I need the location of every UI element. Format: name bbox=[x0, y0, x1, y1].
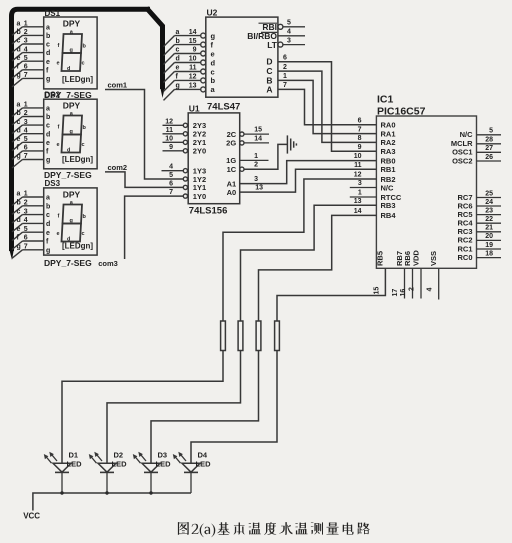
display DS2 pin g7 wire from bus bbox=[12, 160, 23, 169]
svg-text:e: e bbox=[17, 136, 21, 143]
svg-text:g: g bbox=[17, 244, 21, 251]
svg-text:2: 2 bbox=[24, 200, 28, 207]
svg-text:g: g bbox=[46, 157, 50, 164]
svg-text:b: b bbox=[83, 125, 87, 131]
svg-text:1: 1 bbox=[254, 153, 258, 160]
svg-text:6: 6 bbox=[169, 180, 173, 187]
svg-text:5: 5 bbox=[24, 226, 28, 233]
U2 pin LT (3) wire stub bbox=[283, 44, 305, 46]
wire com1 to U1 1Y2 bbox=[105, 90, 183, 180]
svg-text:g: g bbox=[17, 72, 21, 79]
svg-text:d: d bbox=[46, 221, 50, 228]
svg-text:9: 9 bbox=[358, 144, 362, 151]
resistor R2 body bbox=[238, 321, 243, 351]
svg-text:3: 3 bbox=[24, 119, 28, 126]
svg-text:3: 3 bbox=[287, 37, 291, 44]
svg-text:RC0: RC0 bbox=[457, 253, 472, 262]
svg-text:5: 5 bbox=[489, 128, 493, 135]
svg-text:e: e bbox=[17, 226, 21, 233]
U2 input pin branch from bus bbox=[164, 72, 175, 83]
display DS2 pin d4 wire from bus bbox=[12, 134, 23, 143]
U1 output 1Y3 wire stub bbox=[162, 170, 184, 172]
display DS2 pin a1 wire from bus bbox=[12, 108, 23, 117]
wire U2 D to IC1 RA pin 9 bbox=[278, 62, 377, 152]
LED D4 emission arrows bbox=[175, 456, 181, 463]
svg-text:d: d bbox=[67, 148, 70, 154]
svg-text:8: 8 bbox=[358, 135, 362, 142]
svg-text:14: 14 bbox=[189, 29, 197, 36]
svg-text:5: 5 bbox=[287, 20, 291, 27]
svg-text:b: b bbox=[211, 76, 216, 85]
U2 pin LT bubble bbox=[278, 42, 283, 47]
display DS1 pin g7 wire from bus bbox=[12, 78, 23, 87]
U2 input pin c (11) bubble bbox=[201, 69, 206, 74]
svg-text:a: a bbox=[46, 106, 50, 113]
U2 input pin g wire bbox=[175, 35, 201, 37]
svg-text:d: d bbox=[211, 58, 216, 67]
svg-text:7: 7 bbox=[24, 72, 28, 79]
LED D1 wire to bus bbox=[61, 472, 63, 493]
svg-text:g: g bbox=[70, 48, 73, 54]
svg-text:74LS156: 74LS156 bbox=[189, 205, 228, 216]
svg-text:10: 10 bbox=[354, 153, 362, 160]
LED D3 wire to bus bbox=[150, 472, 152, 493]
svg-text:14: 14 bbox=[354, 208, 362, 215]
svg-text:f: f bbox=[176, 74, 179, 81]
svg-text:VSS: VSS bbox=[429, 251, 438, 266]
svg-text:a: a bbox=[17, 102, 21, 109]
svg-text:f: f bbox=[46, 149, 49, 156]
svg-text:RB0: RB0 bbox=[381, 156, 396, 165]
svg-text:16: 16 bbox=[400, 289, 407, 297]
display DS2 pin f6 wire from bus bbox=[12, 151, 23, 160]
svg-text:LED: LED bbox=[67, 460, 83, 469]
svg-text:7: 7 bbox=[24, 244, 28, 251]
wire IC1 RB5 (15) to resistor R4 bbox=[277, 268, 385, 321]
wire bus cable (thick black) left+top bbox=[12, 9, 151, 251]
svg-text:d: d bbox=[46, 131, 50, 138]
svg-text:e: e bbox=[46, 59, 50, 66]
wire R3 to LED D3 bbox=[151, 351, 259, 464]
svg-text:IC1: IC1 bbox=[377, 94, 394, 106]
U1 pin 2G wire stub bbox=[244, 142, 269, 144]
svg-text:c: c bbox=[46, 42, 50, 49]
svg-text:c: c bbox=[82, 142, 85, 148]
U2 input pin branch from bus bbox=[164, 54, 175, 65]
svg-text:DPY: DPY bbox=[63, 189, 81, 199]
U2 input pin branch from bus bbox=[164, 63, 175, 74]
svg-text:13: 13 bbox=[354, 198, 362, 205]
svg-text:1Y0: 1Y0 bbox=[193, 192, 206, 201]
svg-text:21: 21 bbox=[485, 225, 493, 232]
IC1 pin RTCC (1) wire stub bbox=[350, 196, 377, 198]
svg-text:b: b bbox=[46, 33, 50, 40]
svg-text:A0: A0 bbox=[227, 188, 237, 197]
wire U1 1C to ground bbox=[244, 144, 287, 169]
svg-text:f: f bbox=[58, 43, 60, 49]
svg-text:RB3: RB3 bbox=[381, 201, 396, 210]
svg-text:1: 1 bbox=[283, 73, 287, 80]
svg-text:13: 13 bbox=[255, 185, 263, 192]
caption text 图2(a)基本温度水温测量电路 bbox=[178, 522, 370, 537]
display DS1 7-seg glyph bbox=[63, 34, 83, 53]
U2 input pin branch from bus bbox=[164, 80, 175, 91]
U1 pin 2G bubble bbox=[240, 141, 244, 145]
svg-text:17: 17 bbox=[392, 289, 399, 297]
display DS1 pin d4 wire from bus bbox=[12, 53, 23, 62]
svg-text:1: 1 bbox=[24, 21, 28, 28]
U1 pin 1G wire stub bbox=[240, 159, 269, 161]
LED D3 emission arrows bbox=[135, 456, 141, 463]
svg-text:3: 3 bbox=[24, 208, 28, 215]
U2 input pin b (12) bubble bbox=[201, 78, 206, 83]
svg-text:c: c bbox=[46, 123, 50, 130]
wire U2 B to IC1 RA pin 7 bbox=[278, 80, 377, 133]
junction dot D3 bbox=[149, 491, 152, 494]
svg-text:c: c bbox=[211, 67, 215, 76]
svg-text:com1: com1 bbox=[108, 81, 128, 90]
svg-text:U2: U2 bbox=[207, 7, 218, 17]
svg-text:f: f bbox=[58, 214, 60, 220]
svg-text:N/C: N/C bbox=[381, 183, 395, 192]
svg-text:e: e bbox=[46, 230, 50, 237]
svg-text:20: 20 bbox=[485, 233, 493, 240]
U2 input pin branch from bus bbox=[164, 36, 175, 47]
svg-text:7: 7 bbox=[283, 82, 287, 89]
U1 output 2Y0 wire stub bbox=[163, 150, 184, 152]
svg-text:4: 4 bbox=[169, 164, 173, 171]
IC1 pin OSC2 wire stub bbox=[477, 160, 502, 162]
display DS2 body box bbox=[44, 99, 97, 169]
IC1 pin RC0 wire stub bbox=[477, 257, 502, 259]
IC1 pin RC3 wire stub bbox=[477, 231, 502, 233]
svg-text:g: g bbox=[70, 129, 73, 135]
svg-text:D3: D3 bbox=[158, 450, 168, 459]
U1 output 1Y1 (6) bubble bbox=[183, 185, 187, 189]
U2 input pin g (14) bubble bbox=[201, 33, 206, 38]
svg-text:e: e bbox=[176, 65, 180, 72]
display DS3 pin a1 wire from bus bbox=[12, 197, 23, 206]
U2 input pin branch from bus bbox=[164, 89, 175, 100]
svg-text:2: 2 bbox=[24, 110, 28, 117]
wire R4 to LED D4 bbox=[191, 351, 277, 464]
U2 input pin d wire bbox=[175, 62, 201, 64]
svg-text:g: g bbox=[46, 247, 50, 254]
svg-text:RA0: RA0 bbox=[381, 121, 396, 130]
junction dot D1 bbox=[60, 491, 63, 494]
LED D1 triangle bbox=[53, 463, 71, 472]
svg-text:RA2: RA2 bbox=[381, 138, 396, 147]
svg-text:12: 12 bbox=[354, 172, 362, 179]
svg-text:1G: 1G bbox=[226, 156, 236, 165]
svg-text:OSC1: OSC1 bbox=[452, 148, 472, 157]
svg-text:74LS47: 74LS47 bbox=[207, 102, 240, 113]
svg-text:VCC: VCC bbox=[23, 512, 40, 521]
svg-text:1: 1 bbox=[358, 190, 362, 197]
svg-text:4: 4 bbox=[24, 46, 28, 53]
svg-text:1C: 1C bbox=[227, 165, 237, 174]
svg-text:b: b bbox=[83, 214, 87, 220]
svg-text:D4: D4 bbox=[198, 450, 208, 459]
svg-text:3: 3 bbox=[358, 180, 362, 187]
svg-text:15: 15 bbox=[254, 127, 262, 134]
LED D2 cathode bar bbox=[100, 471, 114, 473]
display DS3 pin g7 wire from bus bbox=[12, 250, 23, 258]
U1 output 2Y2 wire stub bbox=[163, 133, 184, 135]
svg-text:c: c bbox=[82, 61, 85, 67]
svg-text:g: g bbox=[46, 76, 50, 83]
resistor R1 body bbox=[221, 321, 226, 351]
svg-text:13: 13 bbox=[189, 83, 197, 90]
U1 output 1Y0 (7) bubble bbox=[183, 194, 187, 198]
svg-text:6: 6 bbox=[358, 118, 362, 125]
svg-text:DPY_7-SEG: DPY_7-SEG bbox=[44, 258, 92, 268]
display DS3 7-seg glyph bbox=[63, 205, 83, 224]
LED D2 emission arrows bbox=[91, 456, 97, 463]
svg-text:c: c bbox=[46, 212, 50, 219]
svg-text:6: 6 bbox=[24, 145, 28, 152]
display DS1 pin c3 wire from bus bbox=[12, 44, 23, 53]
IC1 PIC16C57 body box bbox=[376, 116, 476, 268]
wire bus cable tip right bbox=[160, 87, 165, 98]
svg-text:N/C: N/C bbox=[460, 130, 474, 139]
svg-text:DPY: DPY bbox=[63, 101, 81, 111]
svg-text:12: 12 bbox=[165, 118, 173, 125]
svg-text:4: 4 bbox=[24, 217, 28, 224]
U1 output 2Y1 wire stub bbox=[163, 141, 184, 143]
wire U1 A1 to IC1 RB0 (10) bbox=[240, 161, 377, 184]
svg-text:DS2: DS2 bbox=[45, 90, 61, 99]
svg-text:g: g bbox=[17, 153, 21, 160]
U1 output 2Y3 wire stub bbox=[163, 124, 184, 126]
U1 74LS156 body box bbox=[188, 113, 240, 204]
IC1 pin RB7 wire stub bbox=[404, 268, 406, 298]
display DS1 pin f6 wire from bus bbox=[12, 70, 23, 79]
svg-text:RB1: RB1 bbox=[381, 165, 396, 174]
wire R2 to LED D2 bbox=[107, 351, 241, 464]
svg-text:f: f bbox=[58, 125, 60, 131]
svg-text:a: a bbox=[176, 29, 180, 36]
svg-text:com2: com2 bbox=[108, 163, 128, 172]
svg-text:6: 6 bbox=[283, 54, 287, 61]
U2 pin RBI (5) wire stub bbox=[283, 26, 305, 28]
svg-text:1: 1 bbox=[24, 102, 28, 109]
wire com2 to U1 1Y1 bbox=[105, 172, 183, 188]
LED D1 cathode bar bbox=[55, 471, 69, 473]
LED D4 wire to bus bbox=[190, 472, 192, 493]
svg-text:b: b bbox=[83, 44, 87, 50]
LED D4 cathode bar bbox=[184, 471, 198, 473]
svg-text:a: a bbox=[46, 24, 50, 31]
svg-text:D1: D1 bbox=[69, 450, 79, 459]
svg-text:d: d bbox=[17, 46, 21, 53]
svg-text:e: e bbox=[57, 142, 60, 148]
svg-text:a: a bbox=[17, 191, 21, 198]
U1 output 1Y3 (4) bubble bbox=[183, 169, 187, 173]
svg-text:2G: 2G bbox=[226, 139, 236, 148]
svg-text:A: A bbox=[266, 84, 272, 94]
U2 input pin e (9) bubble bbox=[201, 51, 206, 56]
svg-text:27: 27 bbox=[485, 145, 493, 152]
svg-text:[LEDgn]: [LEDgn] bbox=[62, 75, 93, 84]
svg-text:c: c bbox=[17, 38, 21, 45]
U2 input pin a (13) bubble bbox=[201, 87, 206, 92]
IC1 pin RC4 wire stub bbox=[477, 222, 502, 224]
svg-text:OSC2: OSC2 bbox=[452, 156, 472, 165]
U2 pin RBI bubble bbox=[278, 24, 283, 29]
svg-text:e: e bbox=[46, 140, 50, 147]
svg-text:b: b bbox=[46, 203, 50, 210]
svg-text:[LEDgn]: [LEDgn] bbox=[62, 241, 93, 250]
IC1 pin RB6 wire stub bbox=[412, 268, 414, 298]
svg-text:D2: D2 bbox=[114, 450, 124, 459]
ground (signal ground bars) bbox=[286, 135, 288, 153]
U1 pin 2C bubble bbox=[240, 132, 244, 136]
svg-text:2Y0: 2Y0 bbox=[193, 147, 206, 156]
svg-text:com3: com3 bbox=[98, 259, 118, 268]
svg-text:18: 18 bbox=[485, 250, 493, 257]
svg-text:RB5: RB5 bbox=[376, 251, 385, 266]
LED D2 triangle bbox=[98, 463, 116, 472]
svg-text:e: e bbox=[211, 49, 215, 58]
svg-text:7: 7 bbox=[169, 189, 173, 196]
svg-text:RA1: RA1 bbox=[381, 129, 396, 138]
svg-text:3: 3 bbox=[24, 38, 28, 45]
svg-text:7: 7 bbox=[24, 153, 28, 160]
U2 pin BI/RBO (4) wire stub bbox=[278, 35, 305, 37]
U1 pin 1C bubble bbox=[240, 167, 244, 171]
svg-text:25: 25 bbox=[485, 190, 493, 197]
U2 input pin c wire bbox=[175, 71, 201, 73]
svg-text:c: c bbox=[176, 47, 180, 54]
wire IC1 RB3 (13) to resistor R2 bbox=[241, 205, 377, 321]
svg-text:1: 1 bbox=[24, 191, 28, 198]
U2 input pin d (10) bubble bbox=[201, 60, 206, 65]
U2 input pin a wire bbox=[175, 88, 201, 90]
IC1 pin VDD wire stub bbox=[420, 268, 422, 298]
svg-text:e: e bbox=[57, 231, 60, 237]
svg-text:[LEDgn]: [LEDgn] bbox=[62, 155, 93, 164]
display DS1 pin b2 wire from bus bbox=[12, 35, 23, 44]
U1 output 2Y2 (11) bubble bbox=[183, 132, 187, 136]
svg-text:DS3: DS3 bbox=[45, 179, 61, 188]
svg-text:DPY: DPY bbox=[63, 19, 81, 29]
svg-text:9: 9 bbox=[193, 47, 197, 54]
display DS3 pin d4 wire from bus bbox=[12, 223, 23, 232]
svg-text:b: b bbox=[17, 110, 21, 117]
LED D3 triangle bbox=[142, 463, 160, 472]
svg-text:6: 6 bbox=[24, 64, 28, 71]
svg-text:2: 2 bbox=[283, 64, 287, 71]
svg-text:d: d bbox=[67, 66, 70, 72]
U1 output 1Y2 (5) bubble bbox=[183, 177, 187, 181]
wire bus cable diagonal to U2 bbox=[147, 8, 163, 89]
IC1 pin RC5 wire stub bbox=[477, 214, 502, 216]
svg-text:LED: LED bbox=[112, 460, 128, 469]
svg-text:19: 19 bbox=[485, 242, 493, 249]
wire IC1 RB2 (12) to resistor R1 bbox=[223, 179, 376, 321]
LED D1 emission arrows bbox=[46, 456, 52, 463]
display DS1 pin e5 wire from bus bbox=[12, 61, 23, 69]
wire R1 to LED D1 bbox=[62, 351, 223, 464]
junction dot D2 bbox=[105, 491, 108, 494]
svg-text:b: b bbox=[176, 38, 180, 45]
wire com3 to U1 1Y0 bbox=[125, 196, 184, 259]
svg-text:1Y1: 1Y1 bbox=[193, 183, 206, 192]
svg-text:e: e bbox=[57, 61, 60, 67]
svg-text:11: 11 bbox=[189, 65, 197, 72]
display DS3 body box bbox=[44, 188, 97, 255]
IC1 pin OSC1 wire stub bbox=[477, 151, 502, 153]
svg-text:LED: LED bbox=[196, 460, 212, 469]
svg-text:c: c bbox=[82, 231, 85, 237]
svg-text:d: d bbox=[17, 217, 21, 224]
svg-text:7: 7 bbox=[358, 126, 362, 133]
svg-text:4: 4 bbox=[24, 127, 28, 134]
svg-text:5: 5 bbox=[24, 55, 28, 62]
svg-text:4: 4 bbox=[426, 288, 433, 292]
wire VCC bus bbox=[33, 493, 191, 511]
IC1 pin RC2 wire stub bbox=[477, 239, 502, 241]
svg-text:3: 3 bbox=[254, 176, 258, 183]
wire U2 A to IC1 RA pin 6 bbox=[278, 89, 377, 124]
wire U1 A0 to IC1 RB1 (11) bbox=[240, 169, 377, 192]
svg-text:b: b bbox=[17, 29, 21, 36]
U1 pin 2C wire stub bbox=[244, 133, 269, 135]
svg-text:2: 2 bbox=[409, 287, 416, 291]
IC1 pin N/C wire stub bbox=[477, 134, 502, 136]
svg-text:LED: LED bbox=[156, 460, 172, 469]
U1 output 2Y1 (10) bubble bbox=[183, 140, 187, 144]
svg-text:11: 11 bbox=[166, 127, 174, 134]
LED D3 cathode bar bbox=[144, 471, 158, 473]
svg-text:23: 23 bbox=[485, 207, 493, 214]
svg-text:15: 15 bbox=[189, 38, 197, 45]
U2 input pin e wire bbox=[175, 53, 201, 55]
svg-text:RA3: RA3 bbox=[381, 147, 396, 156]
svg-text:b: b bbox=[17, 200, 21, 207]
svg-text:5: 5 bbox=[169, 172, 173, 179]
U2 input pin b wire bbox=[175, 79, 201, 81]
IC1 pin VSS wire stub bbox=[438, 268, 440, 299]
svg-text:RB4: RB4 bbox=[381, 211, 397, 220]
wire IC1 RB4 (14) to resistor R3 bbox=[259, 215, 377, 321]
svg-text:c: c bbox=[17, 119, 21, 126]
svg-text:f: f bbox=[46, 67, 49, 74]
display DS1 body box bbox=[44, 17, 97, 89]
svg-text:10: 10 bbox=[165, 135, 173, 142]
svg-text:e: e bbox=[17, 55, 21, 62]
wire U2 C to IC1 RA pin 8 bbox=[278, 71, 377, 142]
svg-text:d: d bbox=[17, 127, 21, 134]
svg-text:f: f bbox=[211, 40, 214, 49]
svg-text:VDD: VDD bbox=[411, 250, 420, 266]
U1 output 2Y3 (12) bubble bbox=[183, 123, 187, 127]
svg-text:d: d bbox=[46, 50, 50, 57]
svg-text:2: 2 bbox=[24, 29, 28, 36]
svg-text:a: a bbox=[211, 85, 216, 94]
display DS2 7-seg glyph bbox=[63, 116, 83, 135]
display DS2 pin c3 wire from bus bbox=[12, 125, 23, 134]
IC1 pin RC6 wire stub bbox=[477, 205, 502, 207]
svg-text:28: 28 bbox=[485, 137, 493, 144]
svg-text:g: g bbox=[211, 31, 216, 40]
svg-text:LT: LT bbox=[267, 40, 278, 50]
svg-text:g: g bbox=[70, 218, 73, 224]
LED D4 triangle bbox=[182, 463, 200, 472]
display DS2 pin e5 wire from bus bbox=[12, 142, 23, 151]
resistor R4 body bbox=[275, 321, 280, 351]
